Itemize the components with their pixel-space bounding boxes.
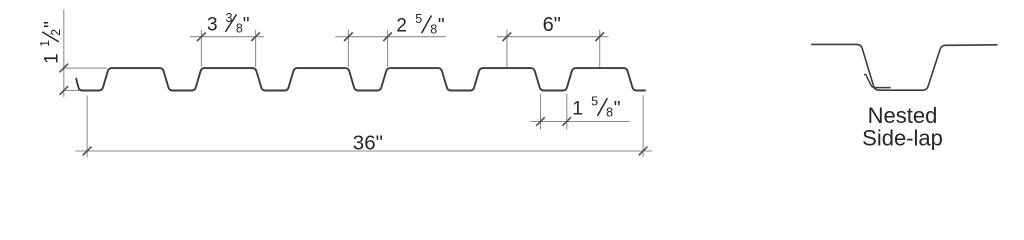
svg-text:3: 3 bbox=[207, 14, 218, 35]
svg-text:8: 8 bbox=[606, 106, 613, 120]
svg-text:1: 1 bbox=[42, 53, 63, 64]
svg-text:6": 6" bbox=[543, 14, 561, 36]
svg-text:": " bbox=[438, 16, 445, 37]
svg-text:5: 5 bbox=[415, 12, 422, 26]
svg-text:2: 2 bbox=[396, 16, 407, 37]
svg-text:1: 1 bbox=[572, 98, 583, 119]
svg-text:8: 8 bbox=[430, 23, 437, 37]
svg-text:36": 36" bbox=[353, 131, 383, 154]
svg-text:": " bbox=[243, 14, 250, 35]
svg-text:1: 1 bbox=[38, 40, 52, 47]
svg-text:5: 5 bbox=[591, 95, 598, 109]
svg-text:": " bbox=[42, 21, 63, 28]
svg-text:2: 2 bbox=[49, 29, 63, 36]
svg-text:Nested: Nested bbox=[868, 103, 938, 128]
svg-text:Side-lap: Side-lap bbox=[862, 126, 943, 151]
svg-text:": " bbox=[614, 98, 621, 119]
